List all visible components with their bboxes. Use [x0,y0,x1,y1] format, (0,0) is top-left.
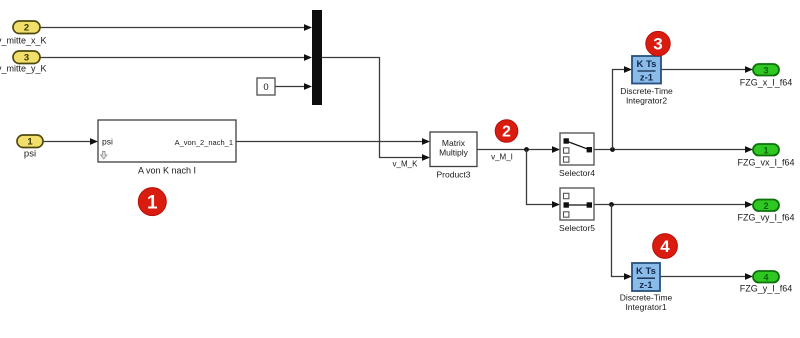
inport 3 v_mitte_y_K [13,51,40,64]
red callout badge 1 [138,188,166,216]
svg-text:3: 3 [653,35,662,54]
svg-text:4: 4 [763,272,768,282]
svg-text:FZG_x_I_f64: FZG_x_I_f64 [740,78,793,88]
junction on Selector5 output [609,202,614,207]
svg-text:A von K nach I: A von K nach I [138,165,196,175]
wire from inport 3 to mux [40,54,312,61]
svg-text:0: 0 [263,82,268,93]
junction on Selector4 output [610,147,615,152]
svg-text:Integrator2: Integrator2 [626,96,667,106]
wire from inport 2 to mux [40,24,312,31]
wire from Selector4 output to outport FZG_vx_I_f64 [594,146,753,153]
wire branch down to Selector5 [527,150,561,208]
svg-text:Selector5: Selector5 [559,223,595,233]
svg-text:v_mitte_y_K: v_mitte_y_K [0,64,47,74]
product block Product3 [430,132,477,167]
outport 4 FZG_y_I_f64 [753,271,779,283]
svg-text:FZG_vy_I_f64: FZG_vy_I_f64 [737,212,794,222]
wire from mux output to Product3 lower input (net v_M_K) [322,58,430,161]
svg-text:1: 1 [147,192,158,213]
svg-text:Product3: Product3 [436,170,470,180]
svg-text:Discrete-Time: Discrete-Time [620,86,673,96]
wire from inport 1 psi to subsystem [43,138,98,145]
svg-text:K Ts: K Ts [637,59,657,70]
svg-text:Selector4: Selector4 [559,168,595,178]
red callout badge 3 [646,31,670,55]
svg-text:A_von_2_nach_1: A_von_2_nach_1 [175,138,233,147]
selector Selector4 [560,133,594,165]
subsystem A von K nach I [98,120,236,162]
svg-text:FZG_vx_I_f64: FZG_vx_I_f64 [737,158,794,168]
svg-text:FZG_y_I_f64: FZG_y_I_f64 [740,284,793,294]
svg-text:psi: psi [102,137,113,147]
wire from Integrator1 to outport FZG_y_I_f64 [660,273,753,280]
outport 2 FZG_vy_I_f64 [753,200,779,212]
inport 2 v_mitte_x_K [13,21,40,34]
svg-text:1: 1 [27,137,33,148]
svg-text:K Ts: K Ts [636,266,656,277]
svg-text:Integrator1: Integrator1 [625,302,666,312]
integrator Discrete-Time Integrator2 [632,56,661,84]
wire from constant 0 to mux [275,83,312,90]
svg-text:v_mitte_x_K: v_mitte_x_K [0,36,47,46]
wire from subsystem output to Product3 upper input [236,138,430,145]
wire from Selector5 output to outport FZG_vy_I_f64 [594,201,753,208]
svg-text:2: 2 [763,201,768,211]
wire branch up to Integrator2 [613,66,633,149]
wire from Product3 output to Selector4 (net v_M_I) [477,146,560,153]
svg-text:Discrete-Time: Discrete-Time [620,293,673,303]
selector Selector5 [560,188,594,220]
integrator Discrete-Time Integrator1 [632,263,660,291]
wire from Integrator2 to outport FZG_x_I_f64 [661,66,753,73]
svg-text:3: 3 [763,65,768,75]
svg-text:Matrix: Matrix [442,138,466,148]
svg-text:2: 2 [502,124,511,141]
svg-text:psi: psi [24,149,36,160]
svg-text:v_M_K: v_M_K [393,160,419,169]
subsystem mask arrow icon [101,152,107,159]
mux [312,10,322,105]
svg-text:Multiply: Multiply [439,148,469,158]
outport 1 FZG_vx_I_f64 [753,144,779,156]
outport 3 FZG_x_I_f64 [753,64,779,76]
svg-text:1: 1 [763,145,768,155]
svg-text:z-1: z-1 [639,280,653,291]
junction at Product3 output branch [524,147,529,152]
constant 0 [257,78,275,95]
svg-text:4: 4 [660,237,670,256]
svg-text:3: 3 [24,53,29,64]
svg-text:v_M_I: v_M_I [491,153,513,162]
red callout badge 4 [653,234,678,259]
svg-text:2: 2 [24,23,29,34]
svg-text:z-1: z-1 [640,73,654,84]
wire branch down to Integrator1 [612,205,633,280]
inport 1 psi [17,135,43,148]
red callout badge 2 [495,120,518,143]
